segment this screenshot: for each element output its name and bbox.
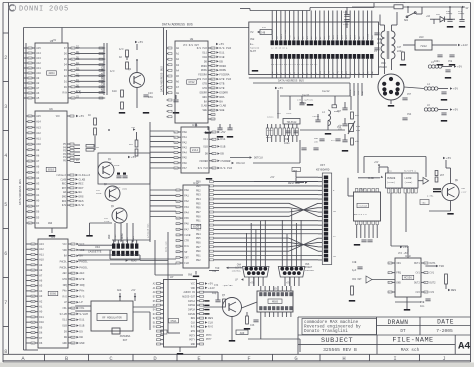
- svg-text:7-2005: 7-2005: [436, 328, 453, 334]
- svg-text:GND: GND: [361, 90, 364, 95]
- svg-text:PHCOL: PHCOL: [79, 260, 88, 263]
- svg-text:R/W: R/W: [79, 203, 84, 207]
- svg-text:PB2: PB2: [196, 259, 201, 262]
- svg-text:D11: D11: [220, 138, 225, 141]
- svg-text:FLR: FLR: [184, 262, 189, 265]
- svg-text:SHE: SHE: [219, 109, 224, 112]
- svg-text:A4: A4: [39, 290, 43, 293]
- svg-text:VCC: VCC: [191, 283, 196, 286]
- svg-text:BA: BA: [219, 100, 223, 103]
- svg-text:PHCOL: PHCOL: [79, 266, 88, 269]
- svg-text:Q7: Q7: [222, 294, 226, 297]
- svg-text:G: G: [294, 355, 297, 362]
- svg-text:28: 28: [32, 286, 34, 288]
- svg-text:PA6: PA6: [182, 162, 187, 165]
- svg-text:PA2: PA2: [184, 200, 189, 203]
- svg-text:CN8: CN8: [250, 38, 255, 41]
- svg-text:A3: A3: [36, 183, 40, 186]
- svg-text:+5V: +5V: [270, 176, 275, 179]
- svg-text:3: 3: [72, 256, 73, 258]
- svg-text:4: 4: [212, 61, 213, 63]
- svg-text:D11: D11: [62, 319, 67, 322]
- svg-text:ETB: ETB: [219, 87, 224, 90]
- svg-text:+5V: +5V: [220, 131, 225, 134]
- svg-text:4: 4: [389, 263, 390, 265]
- svg-text:PB5: PB5: [196, 202, 201, 205]
- svg-text:17: 17: [72, 337, 74, 339]
- svg-text:A7: A7: [36, 87, 40, 90]
- svg-text:22: 22: [32, 254, 34, 256]
- svg-text:CR1 OUT: CR1 OUT: [352, 278, 362, 281]
- svg-text:R/W: R/W: [62, 204, 67, 207]
- svg-text:21: 21: [29, 122, 31, 124]
- svg-text:CLAB: CLAB: [201, 105, 207, 108]
- svg-text:F1 7.5A: F1 7.5A: [396, 1, 406, 4]
- svg-text:19: 19: [29, 88, 31, 90]
- svg-text:15: 15: [72, 325, 74, 327]
- svg-text:27: 27: [177, 263, 179, 265]
- svg-text:22 2B 1B 1B: 22 2B 1B 1B A: [271, 47, 288, 50]
- svg-text:M08S: M08S: [272, 300, 279, 303]
- svg-text:A2: A2: [176, 58, 180, 61]
- svg-text:7: 7: [4, 300, 7, 306]
- svg-text:R/G: R/G: [79, 294, 84, 298]
- svg-text:9: 9: [72, 92, 73, 94]
- svg-text:A11: A11: [36, 138, 41, 141]
- svg-text:3: 3: [425, 282, 426, 284]
- svg-text:KEYBOARD: KEYBOARD: [316, 169, 330, 172]
- svg-text:VDD: VDD: [191, 287, 196, 290]
- svg-text:D7: D7: [39, 337, 43, 340]
- svg-text:Cav11: Cav11: [302, 94, 310, 97]
- svg-text:ETB: ETB: [191, 330, 196, 333]
- svg-text:D6: D6: [39, 342, 43, 345]
- svg-text:+5V: +5V: [131, 126, 136, 129]
- svg-text:7681-T: 7681-T: [113, 186, 121, 189]
- svg-text:35: 35: [29, 200, 31, 202]
- svg-text:A4: A4: [176, 69, 180, 72]
- svg-text:A9: A9: [39, 264, 43, 267]
- svg-text:6566: 6566: [50, 293, 57, 296]
- svg-text:D11: D11: [202, 51, 207, 54]
- svg-text:CLK: CLK: [191, 321, 196, 324]
- svg-text:A5: A5: [36, 171, 40, 174]
- svg-text:PB6: PB6: [196, 241, 201, 244]
- svg-text:R/G: R/G: [62, 295, 67, 298]
- svg-text:+5V: +5V: [353, 90, 356, 95]
- svg-text:U6: U6: [49, 108, 53, 111]
- svg-text:100N: 100N: [122, 188, 128, 191]
- svg-text:C4B: C4B: [261, 32, 266, 35]
- svg-text:17: 17: [177, 207, 179, 209]
- svg-text:CNT: CNT: [184, 256, 189, 259]
- svg-text:13: 13: [175, 158, 177, 160]
- svg-text:VCC R/G OUT: VCC R/G OUT: [183, 44, 199, 47]
- svg-text:30: 30: [32, 296, 34, 298]
- svg-text:5: 5: [213, 161, 214, 163]
- svg-text:GND: GND: [48, 222, 53, 225]
- svg-text:AUDIO OUT: AUDIO OUT: [182, 295, 195, 298]
- svg-text:2K7: 2K7: [440, 174, 445, 177]
- svg-text:8: 8: [4, 349, 7, 355]
- svg-text:3: 3: [212, 57, 213, 59]
- svg-text:11: 11: [29, 48, 31, 50]
- svg-text:CAP1A: CAP1A: [188, 300, 196, 303]
- svg-text:RND1: RND1: [300, 102, 307, 105]
- svg-text:39: 39: [32, 343, 34, 345]
- svg-text:CLKB: CLKB: [60, 178, 66, 181]
- svg-text:GND: GND: [79, 342, 84, 345]
- svg-text:U16: U16: [360, 189, 365, 192]
- svg-text:PA4: PA4: [182, 152, 187, 155]
- svg-text:5: 5: [72, 70, 73, 72]
- svg-text:PB3: PB3: [196, 194, 201, 197]
- svg-text:A8: A8: [39, 269, 43, 272]
- svg-text:DATA/ADDRESS BUS: DATA/ADDRESS BUS: [160, 66, 164, 92]
- svg-text:4: 4: [425, 292, 426, 294]
- svg-text:+5V: +5V: [208, 283, 213, 286]
- svg-text:D1B: D1B: [79, 325, 84, 328]
- svg-text:AUG: AUG: [117, 289, 122, 292]
- svg-text:12: 12: [175, 152, 177, 154]
- svg-text:2: 2: [72, 250, 73, 252]
- svg-text:PA0: PA0: [182, 131, 187, 134]
- svg-text:6: 6: [389, 282, 390, 284]
- svg-text:13: 13: [212, 101, 214, 103]
- svg-text:31: 31: [32, 301, 34, 303]
- svg-text:DB: DB: [79, 336, 83, 339]
- svg-text:A14: A14: [36, 121, 41, 124]
- svg-text:PB6: PB6: [196, 207, 201, 210]
- svg-text:7: 7: [72, 279, 73, 281]
- svg-text:SHE: SHE: [202, 109, 207, 112]
- svg-text:PB1: PB1: [196, 185, 201, 188]
- svg-text:RDPE: RDPE: [280, 33, 283, 39]
- svg-text:D10: D10: [39, 321, 44, 324]
- svg-text:CONTROL: CONTROL: [305, 269, 315, 272]
- svg-text:A5: A5: [39, 285, 43, 288]
- svg-text:14: 14: [29, 63, 31, 65]
- svg-text:TRL5628: TRL5628: [287, 121, 297, 124]
- svg-text:CSCRBR: CSCRBR: [220, 160, 230, 163]
- svg-text:J: J: [442, 355, 445, 362]
- svg-text:PA7: PA7: [182, 167, 187, 170]
- svg-text:CLKB: CLKB: [79, 178, 86, 181]
- svg-text:FSCDRA: FSCDRA: [219, 74, 229, 77]
- svg-text:25: 25: [29, 144, 31, 146]
- svg-text:A15: A15: [36, 115, 41, 118]
- svg-text:A10: A10: [36, 143, 41, 146]
- svg-text:D1B: D1B: [220, 145, 225, 148]
- svg-text:AUD: AUD: [240, 332, 245, 335]
- svg-text:U8: U8: [190, 38, 194, 41]
- svg-text:6: 6: [72, 76, 73, 78]
- svg-text:29: 29: [32, 291, 34, 293]
- svg-text:POTY: POTY: [206, 338, 212, 341]
- svg-text:CLAB: CLAB: [219, 105, 226, 108]
- svg-text:A/COLOR BUS: A/COLOR BUS: [147, 223, 150, 238]
- svg-text:A0: A0: [36, 199, 40, 202]
- svg-text:37: 37: [29, 212, 31, 214]
- svg-text:A13: A13: [36, 126, 41, 129]
- svg-text:1: 1: [213, 132, 214, 134]
- svg-text:RDRA: RDRA: [201, 65, 207, 68]
- svg-text:1: 1: [212, 48, 213, 50]
- svg-text:20: 20: [29, 116, 31, 118]
- svg-text:C5A: C5A: [337, 126, 342, 129]
- svg-text:VDD: VDD: [62, 249, 67, 252]
- svg-text:1: 1: [72, 244, 73, 246]
- svg-text:CV1: CV1: [415, 272, 420, 275]
- svg-text:SLOT: SLOT: [250, 50, 257, 53]
- svg-text:2: 2: [72, 53, 73, 55]
- svg-text:C5A: C5A: [407, 113, 412, 116]
- svg-text:D5: D5: [36, 216, 40, 219]
- svg-text:TBD: TBD: [422, 202, 427, 205]
- svg-text:A7: A7: [39, 274, 43, 277]
- svg-text:REC: REC: [62, 183, 67, 186]
- svg-text:D1B: D1B: [202, 56, 207, 59]
- svg-text:POTX: POTX: [189, 334, 195, 337]
- svg-text:A9: A9: [36, 77, 40, 80]
- svg-text:GND: GND: [62, 342, 67, 345]
- svg-text:1000μ: 1000μ: [446, 12, 453, 15]
- svg-text:D6: D6: [36, 211, 40, 214]
- svg-text:U7: U7: [170, 276, 174, 279]
- svg-text:+9C: +9C: [426, 15, 431, 18]
- svg-text:A8: A8: [176, 92, 180, 95]
- svg-text:A6: A6: [36, 166, 40, 169]
- svg-text:ESDRR: ESDRR: [219, 91, 228, 94]
- svg-text:PB0: PB0: [196, 215, 201, 218]
- svg-text:POTX: POTX: [206, 334, 212, 337]
- svg-text:OUT2: OUT2: [414, 281, 420, 284]
- svg-text:PA2: PA2: [182, 141, 187, 144]
- svg-text:Cav12: Cav12: [313, 115, 320, 118]
- svg-text:100n: 100n: [284, 142, 290, 145]
- svg-text:9: 9: [175, 137, 176, 139]
- svg-text:DONNI 2005: DONNI 2005: [19, 5, 69, 13]
- svg-text:+12V: +12V: [461, 191, 467, 194]
- svg-text:OUT1: OUT1: [414, 262, 420, 265]
- svg-text:A6: A6: [36, 92, 40, 95]
- svg-text:24: 24: [32, 265, 34, 267]
- svg-text:A12: A12: [36, 132, 41, 135]
- svg-text:DRG: DRG: [79, 196, 84, 199]
- svg-text:SUBJECT: SUBJECT: [321, 337, 353, 345]
- svg-text:SW1: SW1: [404, 19, 409, 22]
- svg-text:C5B: C5B: [420, 301, 425, 304]
- svg-text:22: 22: [177, 235, 179, 237]
- svg-text:R/W: R/W: [76, 90, 81, 93]
- svg-text:A3: A3: [39, 295, 43, 298]
- svg-text:Donato Travaglini: Donato Travaglini: [304, 329, 348, 334]
- svg-text:8: 8: [175, 132, 176, 134]
- svg-text:FILE-NAME: FILE-NAME: [392, 337, 433, 345]
- svg-text:DATA/ADDRESS BUS: DATA/ADDRESS BUS: [162, 23, 193, 27]
- svg-text:24: 24: [177, 246, 179, 248]
- svg-text:5: 5: [212, 66, 213, 68]
- svg-text:37: 37: [32, 332, 34, 334]
- svg-text:C52: C52: [448, 60, 453, 63]
- svg-text:6: 6: [212, 70, 213, 72]
- svg-text:DB: DB: [219, 60, 223, 63]
- svg-text:5: 5: [4, 202, 7, 208]
- svg-text:CV2: CV2: [415, 291, 420, 294]
- svg-text:RES: RES: [79, 200, 84, 203]
- svg-text:A12: A12: [39, 248, 44, 251]
- svg-text:Cav12: Cav12: [322, 90, 330, 93]
- svg-text:CN8: CN8: [381, 62, 386, 65]
- svg-text:14: 14: [177, 190, 179, 192]
- svg-text:D11: D11: [39, 316, 44, 319]
- svg-text:DATA/ADDRESS BUS: DATA/ADDRESS BUS: [18, 179, 22, 205]
- svg-text:C6B: C6B: [284, 138, 289, 141]
- svg-text:PA5: PA5: [184, 217, 189, 220]
- svg-text:+5V: +5V: [278, 87, 283, 90]
- svg-text:A/C: A/C: [119, 47, 124, 51]
- svg-text:+5V: +5V: [453, 88, 458, 91]
- svg-text:CR2: CR2: [436, 13, 441, 16]
- svg-text:14: 14: [72, 320, 74, 322]
- svg-text:10n: 10n: [420, 305, 425, 308]
- svg-text:A8: A8: [36, 82, 40, 85]
- svg-text:AEC: AEC: [62, 272, 67, 275]
- svg-text:CLKB: CLKB: [366, 33, 369, 39]
- svg-text:10: 10: [72, 296, 74, 298]
- svg-text:D11: D11: [79, 319, 84, 322]
- svg-text:PA4: PA4: [184, 211, 189, 214]
- svg-text:ETB: ETB: [219, 83, 224, 86]
- svg-text:16: 16: [29, 73, 31, 75]
- svg-text:A7: A7: [36, 160, 40, 163]
- svg-text:A10: A10: [36, 72, 41, 75]
- svg-text:20: 20: [177, 224, 179, 226]
- svg-text:17: 17: [212, 119, 214, 121]
- svg-text:(PCVB): (PCVB): [387, 181, 395, 184]
- svg-text:6: 6: [213, 168, 214, 170]
- svg-text:A12: A12: [36, 62, 41, 65]
- svg-text:32: 32: [32, 306, 34, 308]
- svg-text:26: 26: [177, 257, 179, 259]
- svg-text:38: 38: [32, 338, 34, 340]
- svg-text:POWER: POWER: [379, 66, 387, 69]
- svg-text:18: 18: [177, 212, 179, 214]
- svg-text:HC/CMPR W: HC/CMPR W: [404, 170, 417, 173]
- svg-text:A9: A9: [36, 149, 40, 152]
- svg-text:22n: 22n: [377, 42, 382, 45]
- svg-text:U3: U3: [50, 40, 54, 43]
- svg-text:A13: A13: [39, 243, 44, 246]
- svg-text:PB4: PB4: [196, 198, 201, 201]
- svg-text:22: 22: [29, 127, 31, 129]
- svg-text:BRA: BRA: [219, 96, 224, 99]
- svg-text:CLK1out: CLK1out: [56, 174, 66, 177]
- svg-text:4: 4: [4, 153, 7, 159]
- svg-text:26: 26: [32, 275, 34, 277]
- svg-text:PB0: PB0: [196, 181, 201, 184]
- svg-text:35: 35: [32, 322, 34, 324]
- svg-text:29: 29: [29, 167, 31, 169]
- svg-text:+5V: +5V: [403, 246, 408, 249]
- svg-text:CASSETTE: CASSETTE: [88, 251, 102, 254]
- svg-text:6702: 6702: [188, 81, 195, 84]
- svg-text:PB7: PB7: [196, 211, 201, 214]
- svg-text:GND: GND: [396, 281, 401, 284]
- svg-text:7: 7: [389, 292, 390, 294]
- svg-text:ETB PLR: ETB PLR: [219, 78, 231, 81]
- svg-text:2: 2: [212, 52, 213, 54]
- svg-text:A4: A4: [458, 340, 470, 352]
- svg-text:A1: A1: [176, 53, 180, 56]
- svg-text:PEPERB: PEPERB: [387, 177, 396, 180]
- svg-text:1K: 1K: [119, 56, 123, 59]
- svg-text:28: 28: [29, 161, 31, 163]
- svg-text:C7A: C7A: [214, 284, 219, 287]
- svg-text:T0D: T0D: [439, 265, 444, 268]
- svg-text:CLK1out: CLK1out: [79, 174, 91, 177]
- svg-text:+5V: +5V: [131, 156, 136, 159]
- svg-text:32: 32: [29, 183, 31, 185]
- svg-text:20: 20: [29, 93, 31, 95]
- svg-text:220n: 220n: [397, 50, 403, 53]
- svg-text:A4: A4: [36, 177, 40, 180]
- svg-text:CV1: CV1: [429, 272, 434, 275]
- svg-text:AUDIO IN: AUDIO IN: [184, 291, 196, 294]
- svg-text:CLKB: CLKB: [368, 177, 374, 180]
- svg-text:1MΩ: 1MΩ: [148, 96, 153, 99]
- svg-text:RES: RES: [208, 317, 213, 320]
- svg-text:.1μF/1BV: .1μF/1BV: [222, 284, 233, 287]
- svg-text:RDPE: RDPE: [201, 69, 207, 72]
- svg-text:PA6: PA6: [184, 223, 189, 226]
- svg-text:PA1: PA1: [184, 195, 189, 198]
- svg-text:+5V: +5V: [138, 41, 143, 44]
- svg-text:A14: A14: [36, 52, 41, 55]
- svg-text:D11: D11: [219, 51, 224, 54]
- svg-text:P2: P2: [251, 31, 255, 34]
- svg-text:11: 11: [175, 147, 177, 149]
- svg-text:+5V PLR: +5V PLR: [271, 30, 274, 39]
- svg-text:CAP2A: CAP2A: [188, 308, 196, 311]
- svg-text:ETB: ETB: [202, 87, 207, 90]
- svg-text:11: 11: [212, 92, 214, 94]
- svg-text:1: 1: [425, 263, 426, 265]
- svg-text:4: 4: [72, 65, 73, 67]
- svg-text:S/LUM: S/LUM: [60, 313, 68, 316]
- svg-text:GND: GND: [108, 234, 111, 239]
- svg-text:GND: GND: [191, 343, 196, 346]
- svg-text:+12V: +12V: [208, 287, 215, 290]
- svg-text:DATA/ADDRESS BUS: DATA/ADDRESS BUS: [278, 79, 304, 83]
- svg-text:2SC: 2SC: [108, 161, 113, 164]
- svg-text:R/G: R/G: [191, 326, 196, 329]
- svg-text:16: 16: [212, 114, 214, 116]
- svg-text:2114: 2114: [192, 149, 199, 152]
- svg-text:VCC: VCC: [56, 115, 61, 118]
- svg-text:PA7: PA7: [184, 228, 189, 231]
- svg-text:+CCa: +CCa: [286, 112, 292, 115]
- svg-text:A1: A1: [36, 194, 40, 197]
- svg-text:PA1: PA1: [182, 136, 187, 139]
- svg-text:100: 100: [112, 90, 117, 93]
- svg-text:34: 34: [32, 317, 34, 319]
- svg-text:PB2: PB2: [196, 224, 201, 227]
- svg-text:COL: COL: [79, 307, 84, 310]
- svg-text:DOTCLK: DOTCLK: [254, 157, 264, 160]
- svg-text:17: 17: [29, 78, 31, 80]
- svg-text:10: 10: [212, 88, 214, 90]
